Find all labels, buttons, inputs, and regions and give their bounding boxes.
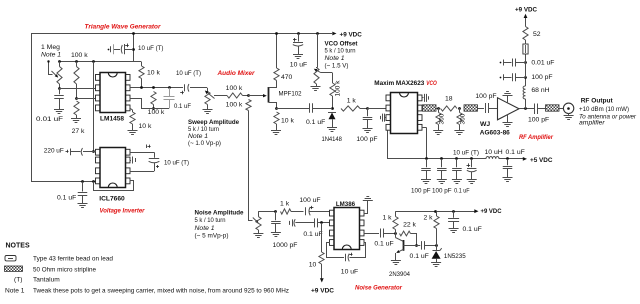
svg-text:Voltage Inverter: Voltage Inverter <box>100 208 145 215</box>
svg-text:10 uF (T): 10 uF (T) <box>138 45 164 52</box>
svg-text:RF Amplifier: RF Amplifier <box>519 134 553 141</box>
svg-text:VCO: VCO <box>426 80 437 87</box>
svg-text:2N3904: 2N3904 <box>389 271 410 278</box>
svg-text:LM386: LM386 <box>336 201 355 208</box>
svg-text:+9 VDC: +9 VDC <box>481 208 502 215</box>
svg-text:Note 1: Note 1 <box>325 55 345 62</box>
svg-text:100 k: 100 k <box>148 109 165 116</box>
svg-text:470: 470 <box>281 74 293 81</box>
svg-text:Note 1: Note 1 <box>41 52 61 59</box>
svg-text:1 k: 1 k <box>382 215 392 222</box>
svg-text:10 uF: 10 uF <box>341 269 358 276</box>
svg-text:1 k: 1 k <box>347 98 357 105</box>
svg-text:VCO Offset: VCO Offset <box>325 41 359 48</box>
svg-text:+9 VDC: +9 VDC <box>515 7 537 14</box>
svg-text:0.1 uF: 0.1 uF <box>374 241 393 248</box>
svg-text:LM1458: LM1458 <box>100 116 124 123</box>
svg-text:1 Meg: 1 Meg <box>41 44 60 51</box>
svg-text:Note 1: Note 1 <box>195 225 215 232</box>
svg-text:2 k: 2 k <box>423 215 433 222</box>
svg-text:WJ: WJ <box>480 121 490 128</box>
svg-text:Note 1: Note 1 <box>5 288 25 295</box>
svg-text:1000 pF: 1000 pF <box>273 242 298 249</box>
svg-text:0.1 uF: 0.1 uF <box>506 149 525 156</box>
svg-text:1 k: 1 k <box>280 201 290 208</box>
svg-text:amplifier: amplifier <box>579 119 605 126</box>
svg-text:(~ 1.0 Vp-p): (~ 1.0 Vp-p) <box>188 140 221 147</box>
svg-text:100 k: 100 k <box>226 85 243 92</box>
svg-text:22 k: 22 k <box>403 222 416 229</box>
svg-text:300: 300 <box>439 113 446 124</box>
svg-text:10 uF: 10 uF <box>290 62 307 69</box>
svg-text:0.1 uF: 0.1 uF <box>174 103 191 110</box>
svg-text:0.01 uF: 0.01 uF <box>36 116 63 123</box>
svg-text:100 pF: 100 pF <box>531 74 552 81</box>
svg-text:5 k / 10 turn: 5 k / 10 turn <box>195 217 226 224</box>
svg-text:ICL7660: ICL7660 <box>99 196 125 203</box>
svg-text:0.1 uF: 0.1 uF <box>410 253 429 260</box>
svg-text:10 uF (T): 10 uF (T) <box>164 160 189 167</box>
svg-text:Triangle Wave Generator: Triangle Wave Generator <box>85 24 161 31</box>
svg-text:100 k: 100 k <box>226 102 243 109</box>
svg-text:0.1 uF: 0.1 uF <box>306 119 325 126</box>
svg-text:220 uF: 220 uF <box>44 148 64 155</box>
svg-text:Audio Mixer: Audio Mixer <box>217 70 255 77</box>
svg-text:0.1 uF: 0.1 uF <box>57 195 76 202</box>
svg-text:10 k: 10 k <box>147 70 160 77</box>
svg-text:10 k: 10 k <box>281 118 294 125</box>
svg-text:Type 43 ferrite bead on lead: Type 43 ferrite bead on lead <box>33 256 113 263</box>
svg-text:100 pF: 100 pF <box>528 117 549 124</box>
svg-text:+9 VDC: +9 VDC <box>340 31 362 38</box>
svg-text:+10 dBm (10 mW): +10 dBm (10 mW) <box>579 106 629 113</box>
svg-text:Noise Generator: Noise Generator <box>355 285 402 292</box>
svg-text:AG603-86: AG603-86 <box>480 130 510 137</box>
svg-text:5 k / 10 turn: 5 k / 10 turn <box>188 126 219 133</box>
svg-text:27 k: 27 k <box>72 128 85 135</box>
svg-text:100 uF: 100 uF <box>299 197 320 204</box>
svg-text:0.01 uF: 0.01 uF <box>531 60 554 67</box>
svg-text:100 pF: 100 pF <box>475 93 496 100</box>
svg-text:Sweep Amplitude: Sweep Amplitude <box>188 119 239 126</box>
svg-text:5 k / 10 turn: 5 k / 10 turn <box>325 48 356 55</box>
svg-text:52: 52 <box>533 31 541 38</box>
svg-text:100 pF: 100 pF <box>432 188 452 195</box>
svg-text:10 uH: 10 uH <box>485 149 503 156</box>
svg-text:Noise Amplitude: Noise Amplitude <box>195 210 244 217</box>
svg-text:10 uF (T): 10 uF (T) <box>453 150 479 157</box>
svg-text:Note 1: Note 1 <box>188 133 208 140</box>
svg-text:68 nH: 68 nH <box>531 87 549 94</box>
svg-text:100 pF: 100 pF <box>356 136 377 143</box>
svg-text:Tweak these pots to get a swee: Tweak these pots to get a sweeping carri… <box>33 288 289 295</box>
svg-text:1N5235: 1N5235 <box>444 253 466 260</box>
svg-text:0.1 uF: 0.1 uF <box>463 226 482 233</box>
svg-text:(~ 1.5 V): (~ 1.5 V) <box>325 63 349 70</box>
svg-text:0.1 uF: 0.1 uF <box>303 231 322 238</box>
svg-text:RF Output: RF Output <box>581 98 614 105</box>
svg-text:100 k: 100 k <box>71 52 88 59</box>
svg-text:(T): (T) <box>14 277 22 284</box>
svg-text:100 k: 100 k <box>335 80 342 97</box>
svg-text:10 uF (T): 10 uF (T) <box>176 70 201 77</box>
svg-text:NOTES: NOTES <box>6 243 30 250</box>
svg-text:300: 300 <box>460 113 467 124</box>
svg-text:Tantalum: Tantalum <box>33 277 60 284</box>
svg-text:0.1 uF: 0.1 uF <box>454 188 470 195</box>
svg-text:+9 VDC: +9 VDC <box>311 288 334 295</box>
svg-text:10: 10 <box>309 262 317 269</box>
svg-text:10 k: 10 k <box>139 123 152 130</box>
svg-text:100 pF: 100 pF <box>411 188 431 195</box>
svg-text:+5 VDC: +5 VDC <box>530 157 553 164</box>
svg-text:(~ 5 mVp-p): (~ 5 mVp-p) <box>195 233 229 240</box>
svg-text:Maxim MAX2623: Maxim MAX2623 <box>374 80 424 87</box>
svg-text:MPF102: MPF102 <box>279 91 302 98</box>
svg-text:18: 18 <box>445 96 453 103</box>
svg-text:1N4148: 1N4148 <box>321 136 342 143</box>
svg-text:50 Ohm micro stripline: 50 Ohm micro stripline <box>33 267 96 274</box>
